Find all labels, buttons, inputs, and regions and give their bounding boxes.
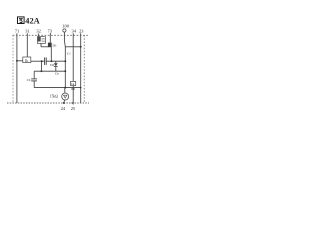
svg-text:23: 23	[79, 29, 84, 34]
svg-text:Cb: Cb	[27, 78, 31, 82]
svg-text:100: 100	[62, 24, 69, 29]
svg-text:24: 24	[61, 106, 66, 111]
svg-text:D1: D1	[53, 43, 57, 47]
svg-text:C1: C1	[67, 52, 71, 56]
svg-text:42A: 42A	[25, 16, 39, 25]
svg-text:D2: D2	[50, 63, 54, 67]
svg-text:34: 34	[72, 29, 77, 34]
svg-text:15kΩ: 15kΩ	[50, 95, 58, 99]
svg-text:Ch: Ch	[55, 71, 59, 75]
svg-text:1k: 1k	[25, 59, 29, 63]
svg-text:32: 32	[36, 29, 40, 34]
svg-text:1k: 1k	[71, 82, 75, 86]
svg-text:71: 71	[15, 29, 19, 34]
svg-text:25: 25	[71, 106, 76, 111]
svg-text:31: 31	[25, 29, 29, 34]
svg-text:73: 73	[48, 29, 53, 34]
